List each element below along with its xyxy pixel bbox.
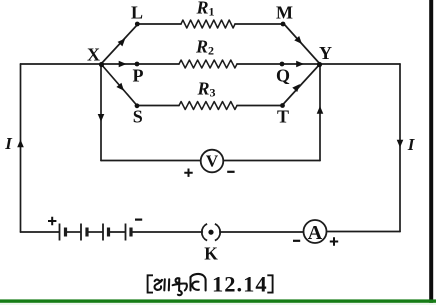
svg-text:A: A bbox=[308, 222, 323, 244]
arrow: X to P bbox=[119, 61, 127, 68]
wire: Y to top-right corner bbox=[320, 63, 400, 65]
caption bracket right bbox=[267, 275, 272, 292]
battery minus label bbox=[135, 219, 142, 221]
arrow: current I down right side bbox=[397, 140, 404, 148]
svg-text:V: V bbox=[206, 152, 219, 171]
svg-text:L: L bbox=[131, 3, 143, 23]
caption: [aakruti 12.14] bbox=[148, 272, 273, 297]
arrow: X to L bbox=[118, 38, 126, 46]
node S dot bbox=[135, 103, 140, 108]
resistor R2 bbox=[179, 60, 237, 68]
wire: T to Y diagonal bbox=[282, 64, 320, 106]
node Q dot bbox=[280, 62, 285, 67]
key K (plug key symbol) bbox=[202, 224, 220, 241]
wire: S to R3 lead bbox=[137, 105, 179, 107]
svg-text:X: X bbox=[87, 45, 100, 65]
arrow: voltmeter up to Y bbox=[317, 106, 324, 114]
voltmeter minus label bbox=[227, 171, 234, 173]
voltmeter plus label bbox=[184, 169, 192, 177]
svg-text:I: I bbox=[4, 134, 13, 153]
node M dot bbox=[281, 22, 286, 27]
wire: X down to voltmeter loop bbox=[100, 64, 102, 161]
arrow: T to Y bbox=[292, 84, 300, 92]
ammeter minus label bbox=[293, 240, 300, 242]
page border line right bbox=[429, 0, 433, 305]
wire: voltmeter loop right vertical up to Y bbox=[319, 64, 321, 161]
wire: right vertical side bbox=[399, 64, 401, 232]
svg-text:Y: Y bbox=[319, 43, 332, 63]
arrow: Q to Y bbox=[296, 61, 304, 68]
svg-text:P: P bbox=[133, 66, 144, 86]
svg-text:T: T bbox=[277, 107, 289, 127]
svg-text:S: S bbox=[133, 107, 143, 127]
page border line bottom (green) bbox=[0, 303, 436, 305]
arrow: X down to voltmeter bbox=[98, 114, 105, 122]
wire: R3 to T lead bbox=[237, 105, 282, 107]
wire: left vertical side bbox=[20, 64, 22, 232]
arrow: X to S bbox=[116, 83, 124, 91]
wire: key K to ammeter bbox=[220, 231, 304, 233]
arrow: current I up left side bbox=[17, 140, 24, 148]
battery B1 bbox=[60, 224, 132, 241]
wire: bottom-left to battery bbox=[21, 231, 60, 233]
battery plus label bbox=[48, 217, 56, 225]
svg-text:R2: R2 bbox=[195, 36, 214, 57]
ammeter plus label bbox=[330, 237, 338, 245]
wire: voltmeter loop left horizontal bbox=[101, 160, 201, 162]
node X junction dot bbox=[99, 62, 104, 67]
resistor R3 bbox=[179, 102, 237, 110]
svg-text:12.14: 12.14 bbox=[212, 272, 268, 297]
resistor R1 bbox=[181, 20, 235, 28]
arrow: M to Y bbox=[294, 36, 302, 44]
svg-text:M: M bbox=[276, 3, 293, 23]
caption bracket left bbox=[148, 275, 153, 292]
wire: voltmeter loop right horizontal bbox=[224, 160, 321, 162]
wire: battery to key K bbox=[132, 231, 203, 233]
node T dot bbox=[280, 103, 285, 108]
svg-text:K: K bbox=[204, 243, 218, 263]
node Y junction dot bbox=[317, 62, 322, 67]
node L dot bbox=[135, 22, 140, 27]
svg-text:R1: R1 bbox=[196, 0, 215, 19]
wire: X to L diagonal bbox=[101, 24, 138, 64]
wire: X to Q middle branch bbox=[101, 63, 179, 65]
caption gujarati word aakruti bbox=[155, 274, 206, 295]
svg-text:I: I bbox=[407, 135, 416, 154]
voltmeter V bbox=[201, 150, 224, 173]
wire: L to R1 lead bbox=[138, 23, 181, 25]
wire: left horizontal into X bbox=[21, 63, 102, 65]
wire: R1 to M lead bbox=[235, 23, 284, 25]
svg-text:R3: R3 bbox=[197, 78, 216, 99]
node P dot bbox=[135, 62, 140, 67]
key K center dot bbox=[208, 230, 213, 235]
svg-text:Q: Q bbox=[276, 66, 290, 86]
wire: R2 to Y bbox=[237, 63, 320, 65]
wire: M to Y diagonal bbox=[284, 24, 320, 64]
ammeter A bbox=[304, 220, 327, 243]
wire: ammeter to bottom-right corner bbox=[327, 231, 401, 233]
wire: X to S diagonal bbox=[101, 64, 137, 106]
